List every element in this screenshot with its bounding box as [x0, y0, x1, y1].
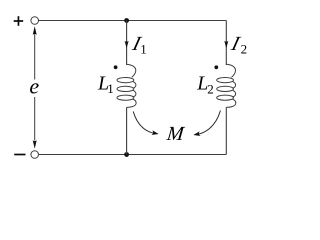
- polarity dot L2: [214, 65, 218, 69]
- wire: L1 branch upper: [126, 21, 128, 66]
- arrowhead down toward - terminal: [33, 140, 37, 148]
- svg-text:2: 2: [241, 41, 248, 56]
- wire: L2 branch lower: [225, 107, 227, 154]
- wire: top horizontal: [38, 20, 226, 22]
- terminal circle bottom-left: [31, 151, 39, 159]
- inductor L1 coil: [117, 64, 136, 107]
- svg-text:1: 1: [107, 81, 114, 96]
- polarity dot L1: [114, 65, 118, 69]
- arrowhead I2 (downward): [224, 41, 228, 48]
- label + (plus sign): [14, 16, 24, 26]
- coupling arrow left (from L1 toward M): [133, 112, 153, 134]
- junction node top: [124, 18, 129, 23]
- wire: L1 branch lower: [126, 107, 128, 154]
- inductor L2 coil: [217, 64, 236, 107]
- wire: L2 branch upper: [225, 21, 227, 66]
- wire: voltage arrow upper segment: [34, 34, 36, 80]
- svg-text:2: 2: [207, 81, 214, 96]
- wire: bottom horizontal: [38, 154, 226, 156]
- wire: voltage arrow lower segment: [34, 97, 36, 141]
- arrowhead up toward + terminal: [33, 26, 37, 34]
- label - (minus sign): [14, 154, 25, 156]
- coupling arrow right (from L2 toward M): [199, 111, 221, 135]
- arrowhead I1 (downward): [125, 41, 129, 48]
- svg-text:e: e: [29, 74, 39, 99]
- terminal circle top-left: [31, 17, 39, 25]
- svg-text:1: 1: [140, 41, 147, 56]
- junction node bottom: [124, 152, 129, 157]
